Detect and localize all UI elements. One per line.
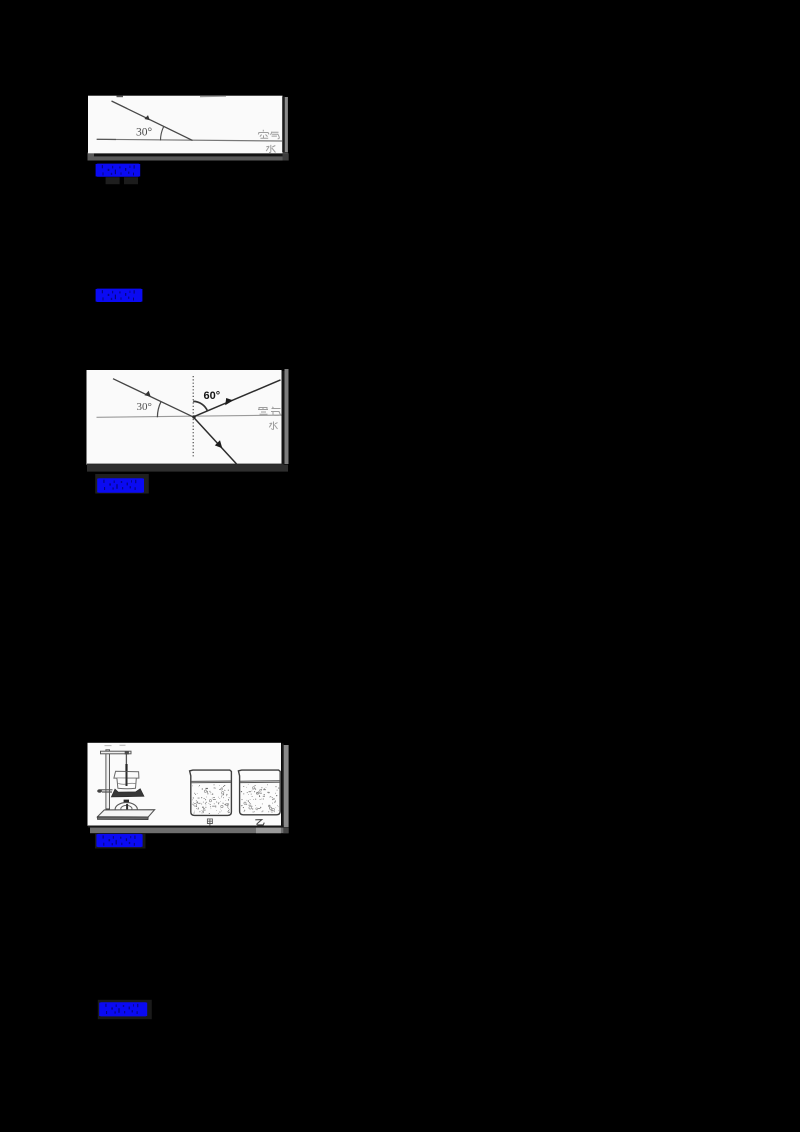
label T2 blue	[96, 289, 143, 302]
fig2 dark bottom edge	[87, 464, 284, 465]
fig3 shadow bottom	[90, 828, 289, 834]
stand base front	[98, 817, 149, 820]
fig2 shadow bottom	[87, 465, 288, 472]
fig2 incident ray	[113, 379, 193, 417]
figure 1: incident ray diagram	[88, 96, 289, 161]
fig2 refracted arrowhead	[215, 440, 223, 448]
fig1 shadow right	[285, 97, 288, 152]
label T1 blue	[96, 164, 141, 177]
fig1 angle arc	[160, 127, 163, 141]
beaker on stand rim	[114, 771, 139, 778]
fig2 angle arc 30	[157, 402, 161, 418]
beaker A label jia	[207, 819, 212, 826]
stand pole	[106, 750, 110, 815]
rod dark segment	[125, 764, 127, 785]
figure 2: reflection refraction diagram	[87, 369, 289, 472]
fig3 shadow right	[283, 745, 288, 827]
lamp wick	[124, 800, 129, 804]
beaker on stand body	[117, 778, 136, 788]
fig1 top left dash	[117, 95, 124, 97]
fig3 dark right edge	[282, 744, 284, 827]
beaker A stipple	[192, 784, 230, 814]
gauze platform	[111, 789, 143, 797]
fig3 white panel	[88, 743, 282, 826]
fig2 air label kongqi	[258, 407, 281, 416]
lamp body	[115, 802, 137, 814]
beaker A water line	[191, 781, 231, 783]
fig1 shadow corner	[283, 153, 289, 160]
fig3 dark bottom edge	[88, 826, 284, 828]
faint remnant under T1	[106, 177, 120, 184]
fig1 ray arrowhead	[144, 115, 149, 120]
fig1 water label shui	[266, 145, 275, 153]
fig1 white panel	[88, 96, 283, 154]
fig1 water surface line	[97, 139, 282, 141]
lamp inner ellipse	[121, 805, 132, 812]
beaker B outline	[238, 770, 280, 815]
clamp on pole	[101, 790, 113, 792]
fig2 junction knot	[192, 415, 195, 418]
fig2 shadow right	[285, 369, 289, 464]
beaker B water line	[240, 781, 280, 783]
fig2 normal dotted line	[192, 376, 194, 457]
beaker B label yi	[255, 820, 264, 825]
label T5 blue	[99, 1002, 147, 1016]
svg-text:60°: 60°	[204, 390, 221, 402]
rod inside beaker overlay	[126, 772, 128, 787]
fig2 refracted ray	[193, 417, 237, 464]
svg-text:30°: 30°	[136, 127, 153, 139]
fig1 top smudge	[200, 95, 226, 98]
beaker A outline	[190, 770, 232, 815]
stand top ticks	[105, 744, 126, 746]
fig2 angle arc 60	[193, 401, 207, 411]
stand base top	[98, 810, 155, 817]
fig2 white panel	[87, 370, 282, 465]
beaker liquid line	[118, 782, 136, 785]
fig2 water surface line	[97, 415, 282, 417]
fig1 shadow bottom	[88, 152, 289, 160]
fig2 reflected ray	[193, 380, 280, 417]
fig1 incident ray	[112, 101, 193, 140]
fig1 dark right edge	[282, 97, 285, 153]
faint remnant box around T3	[95, 474, 149, 494]
clamp knob	[97, 789, 102, 793]
fig2 reflected arrowhead	[225, 398, 233, 405]
figure 3: lab apparatus	[88, 743, 289, 833]
fig2 dark right edge	[282, 371, 285, 465]
fig3 shadow corner	[283, 827, 288, 833]
label T4 blue	[95, 833, 146, 849]
beaker B stipple	[241, 784, 279, 813]
fig2 incident arrowhead	[145, 391, 151, 397]
faint remnant row under T5	[98, 1000, 152, 1019]
label T3 blue	[97, 478, 144, 493]
fig1 air label kongqi	[258, 130, 279, 139]
stirring rod	[125, 753, 127, 786]
fig2 water label shui	[269, 422, 277, 430]
svg-text:30°: 30°	[137, 401, 152, 413]
stand top bar	[101, 751, 132, 754]
